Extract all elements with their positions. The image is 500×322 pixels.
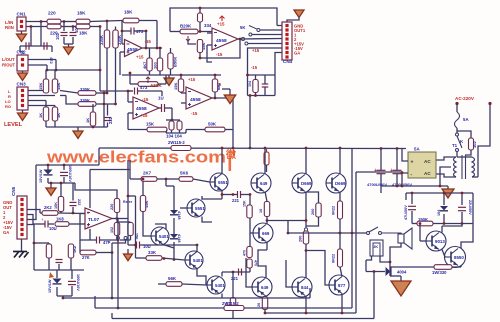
label 2	[294, 37, 297, 42]
resistor 330K sum a	[78, 91, 96, 96]
svg-text:649: 649	[261, 285, 269, 290]
wire dreg top	[443, 193, 445, 205]
svg-text:330K: 330K	[80, 98, 90, 103]
svg-text:5401: 5401	[193, 258, 203, 263]
svg-text:4148: 4148	[177, 211, 181, 219]
wire csup bot	[264, 87, 266, 96]
wire q7 base	[250, 232, 253, 234]
wire amp left down	[135, 196, 137, 245]
junction	[106, 20, 109, 23]
wire 0r22a down	[339, 219, 341, 233]
resistor 27K	[80, 250, 96, 255]
resistor 2W115-2 b	[224, 306, 244, 311]
svg-text:CN2: CN2	[17, 50, 27, 55]
label 15K op4in	[173, 83, 178, 90]
wire cap473 right	[134, 30, 146, 32]
svg-text:2K7: 2K7	[143, 171, 152, 176]
wire snubber bottom	[465, 150, 471, 155]
label 2K2	[44, 205, 52, 210]
svg-text:102: 102	[472, 141, 477, 148]
resistor 330Kb	[113, 30, 118, 48]
label B20K	[180, 24, 192, 29]
wire 10u right	[48, 223, 54, 225]
wire 18K out bottom	[90, 26, 100, 28]
wire to 104 caps	[171, 108, 173, 120]
label 472 b	[49, 57, 54, 64]
fuse 5A	[455, 112, 460, 128]
label 1K	[56, 113, 61, 118]
wire d669b coll	[339, 148, 341, 174]
svg-text:33K: 33K	[148, 250, 157, 255]
wire r15 to op4	[181, 92, 186, 94]
connector CN5	[11, 186, 27, 239]
label 1K8	[56, 217, 64, 222]
svg-text:1W/330: 1W/330	[432, 270, 447, 275]
svg-text:4558: 4558	[190, 97, 201, 103]
wire 150k right	[433, 223, 473, 225]
resistor 330K sum b	[78, 102, 96, 107]
wire 15K to fb	[199, 53, 201, 59]
junction	[439, 185, 442, 188]
wire d2 down	[173, 242, 175, 260]
resistor 18K top	[76, 19, 90, 24]
speaker	[398, 228, 412, 249]
wire r10kn bot	[48, 258, 50, 270]
capacitor 104 b	[177, 121, 182, 130]
capacitor 473 feedback	[131, 28, 134, 35]
svg-text:15K: 15K	[56, 83, 61, 90]
label 2W115-2 b	[222, 301, 239, 306]
wire 330Ka right	[96, 92, 107, 94]
label 15K	[201, 43, 206, 50]
wire em bus	[265, 312, 356, 314]
wire q3 coll	[163, 245, 174, 249]
wire 2k2 right	[58, 212, 85, 215]
wire gnd op4 stem	[229, 89, 231, 95]
resistor 18K bottom	[76, 24, 90, 29]
net circle fb1	[117, 237, 120, 240]
switch K blade	[457, 136, 462, 148]
svg-text:CN1: CN1	[17, 12, 27, 17]
wire tl072 vminus pin	[89, 229, 91, 240]
wire arrow stem	[127, 249, 129, 254]
svg-text:-15: -15	[145, 39, 152, 44]
transistor D669 c	[253, 223, 273, 243]
wire op4 + stub	[181, 102, 186, 104]
wire capb bot	[71, 286, 73, 296]
junction	[55, 69, 58, 72]
svg-text:GA: GA	[3, 230, 9, 235]
potentiometer B20K	[180, 29, 198, 34]
wire 18K to fb node	[139, 20, 157, 22]
capacitor 10U	[45, 221, 48, 228]
wire zener rail top	[36, 164, 99, 166]
label -15	[191, 111, 198, 116]
wire fb cap vertical	[145, 31, 147, 48]
label 220	[110, 204, 114, 210]
ground psu	[442, 189, 454, 198]
svg-text:200: 200	[299, 236, 303, 242]
transistor B877	[329, 275, 349, 295]
wire fb to wiper	[188, 41, 196, 44]
wire A50K left drop	[129, 73, 131, 84]
wire 20 down	[264, 310, 266, 314]
svg-text:GA: GA	[294, 51, 300, 56]
ground below 102 caps	[64, 47, 74, 55]
label 334	[204, 23, 212, 28]
wire 5k6 drop	[165, 179, 167, 186]
wire cap472 rail	[20, 45, 52, 47]
wire CN1 pin1 to R220a	[26, 21, 47, 23]
label 47P	[103, 240, 111, 245]
label AC-220V	[455, 96, 475, 101]
svg-text:470: 470	[243, 250, 247, 256]
switch relay contact a	[367, 232, 370, 235]
wire fb to bus	[117, 245, 119, 308]
wire 15Kamp top	[142, 179, 144, 196]
wire t1 pri bot	[472, 176, 478, 178]
label 4700U/50V a	[367, 182, 387, 187]
label GA	[294, 51, 300, 56]
label 1K2	[73, 246, 77, 253]
wire 330 right	[452, 266, 461, 268]
wire supply to rail	[249, 96, 251, 149]
bridge rectifier 5A	[408, 147, 436, 179]
wire 47p ext	[120, 239, 131, 241]
svg-text:-15: -15	[216, 52, 223, 57]
junction	[221, 147, 224, 150]
junction	[396, 185, 399, 188]
label 1	[3, 210, 6, 215]
wire reg left	[405, 193, 407, 200]
wire diode link	[365, 260, 367, 272]
transistor D649	[251, 173, 271, 193]
wire fuse to switch	[456, 128, 458, 133]
junction	[171, 119, 174, 122]
wire t1 pri top	[457, 156, 472, 158]
label L	[8, 89, 11, 94]
junction	[117, 307, 120, 310]
transformer T1 secondary	[454, 157, 457, 177]
svg-text:+15: +15	[140, 113, 148, 118]
transistor D669 a	[292, 173, 312, 193]
junction rail b	[305, 147, 308, 150]
junction	[199, 57, 202, 60]
resistor 15K op3	[147, 127, 167, 132]
label 10	[259, 209, 263, 213]
label 220 top	[48, 11, 56, 16]
junction rail c	[339, 147, 342, 150]
wire 222tl top	[72, 183, 74, 201]
wire 33k right	[162, 258, 185, 260]
wire 222tl bot	[72, 207, 74, 213]
wire 15K right	[166, 130, 167, 134]
junction	[92, 126, 95, 129]
resistor 2K2	[42, 211, 58, 216]
label 56K	[168, 276, 177, 281]
transistor B649	[252, 277, 272, 297]
wire 10u left	[33, 223, 45, 225]
wire ch2 down	[99, 27, 101, 92]
wire q12 em down	[221, 294, 223, 299]
wire CN3 p2	[28, 95, 55, 97]
svg-text:844: 844	[301, 285, 309, 290]
wire 22u top	[461, 193, 463, 205]
wire base net	[166, 185, 174, 187]
wire tl072 vplus feed	[90, 169, 130, 171]
svg-text:+15: +15	[188, 77, 196, 82]
capacitor 102 snubber	[469, 138, 474, 150]
wire 10 down	[266, 217, 268, 221]
wire q12 coll wire	[221, 272, 223, 277]
transistor 5401 a	[151, 227, 169, 245]
wire 22u bot	[461, 212, 463, 224]
junction	[165, 178, 168, 181]
wire out drop	[116, 219, 118, 224]
wire 27k right	[96, 252, 112, 254]
svg-text:R/OUT: R/OUT	[2, 63, 15, 68]
wire cap b top	[396, 149, 398, 171]
op-amp U2 4558	[212, 28, 238, 50]
wire op3 out	[159, 107, 161, 109]
wire 4K7 bottom	[149, 71, 151, 75]
wire CN5 gnd stem	[21, 239, 23, 251]
diode 4148 a	[170, 210, 178, 215]
svg-text:50K: 50K	[208, 122, 217, 127]
wire 220tl feed	[75, 183, 117, 199]
svg-text:9013: 9013	[435, 239, 445, 244]
wire 47u top	[411, 193, 413, 204]
svg-text:104: 104	[248, 81, 252, 87]
wire cn5 out wire	[27, 210, 40, 214]
wire CN4 pin GA	[275, 53, 282, 76]
label 222	[108, 116, 113, 124]
junction	[99, 25, 102, 28]
label LEVEL	[4, 122, 23, 128]
wire capa top	[63, 165, 65, 170]
svg-text:B20K: B20K	[180, 24, 192, 29]
wire 100 top	[159, 48, 161, 58]
wire CN4 gnd link	[287, 17, 299, 22]
svg-text:0R22: 0R22	[332, 206, 336, 215]
resistor red link	[264, 152, 269, 165]
junction	[106, 92, 109, 95]
junction	[127, 90, 130, 93]
label 472 a	[20, 50, 25, 57]
label 221 b	[231, 276, 239, 281]
wire rail left drop	[98, 148, 100, 165]
resistor 15K a	[43, 79, 48, 93]
junction	[30, 25, 33, 28]
wire op2 out	[238, 38, 282, 41]
label 4148 a	[177, 211, 181, 219]
svg-text:10K: 10K	[54, 202, 58, 209]
label 4700U/50V b	[392, 182, 412, 187]
label -15V	[3, 225, 12, 230]
junction	[305, 249, 308, 252]
wire fb node left	[122, 20, 123, 22]
wire zena top	[47, 165, 49, 170]
transistor D669 b	[326, 173, 346, 193]
wire top frame	[170, 8, 277, 32]
wire r15 up	[180, 75, 182, 79]
label 200 a	[311, 209, 315, 215]
junction	[114, 103, 117, 106]
wire op3 - in	[128, 101, 133, 103]
red mark zener	[49, 272, 54, 278]
label 2	[3, 215, 6, 220]
wire R220 to R18K top	[61, 21, 76, 23]
wire cn5 pin2 wire	[27, 215, 33, 225]
junction	[411, 192, 414, 195]
svg-text:5401: 5401	[215, 283, 225, 288]
relay JK box	[370, 240, 383, 256]
junction	[173, 258, 176, 261]
label 15V/1W b	[48, 279, 52, 293]
wire q1 em down	[221, 191, 223, 200]
svg-text:+: +	[390, 168, 393, 174]
label 470 a	[243, 250, 247, 256]
svg-text:CN5: CN5	[11, 186, 16, 196]
wire fb to rail	[232, 130, 234, 149]
wire a50k gnd stem	[168, 75, 170, 78]
label 47U/50V	[404, 205, 408, 220]
svg-text:20: 20	[257, 303, 261, 307]
wire 47p right	[100, 239, 119, 241]
ground op4	[224, 95, 236, 104]
wire op2 feedback	[200, 39, 240, 58]
capacitor 472b	[44, 42, 47, 50]
label 5K6	[180, 171, 189, 176]
resistor 330Ka	[104, 30, 109, 48]
wire 33k left	[136, 257, 147, 259]
diode 4148 b	[170, 234, 178, 239]
wire bus A rise	[309, 288, 311, 298]
wire gnd stem psu	[447, 186, 449, 189]
label 27K	[82, 255, 90, 260]
svg-text:15V/1W: 15V/1W	[39, 169, 43, 183]
svg-text:4148: 4148	[177, 234, 181, 242]
svg-text:5551: 5551	[218, 180, 228, 185]
wire 15kq7 bot	[249, 218, 251, 233]
resistor 470 a	[247, 247, 252, 258]
wire bus A	[63, 297, 310, 299]
svg-text:-15: -15	[251, 65, 258, 70]
transformer T1 primary	[472, 157, 475, 177]
wire main rail	[99, 147, 406, 150]
label 10K	[54, 202, 58, 209]
svg-text:0R22: 0R22	[332, 254, 336, 263]
wire b649 em	[265, 296, 266, 297]
switch relay contact b	[379, 232, 382, 235]
label 220 bottom	[50, 31, 58, 36]
wire op4 fb	[232, 98, 234, 130]
wire CN4 out1 pin	[260, 29, 282, 31]
label 33K	[148, 250, 157, 255]
label 221	[232, 198, 240, 203]
junction	[33, 242, 36, 245]
power arrow mid	[124, 254, 133, 261]
wire CN4 pin -15	[248, 48, 283, 75]
svg-text:1K2: 1K2	[73, 246, 77, 253]
wire 33k drop	[135, 245, 137, 258]
switch K contact a	[456, 133, 459, 136]
wire gnd stem z	[50, 183, 52, 188]
svg-text:1K: 1K	[85, 118, 90, 123]
label 10U	[49, 226, 57, 231]
label 15K	[38, 83, 43, 90]
wire CN4 pin 1	[252, 34, 282, 36]
svg-text:22U/50V: 22U/50V	[468, 200, 472, 215]
wire C334 down	[199, 22, 201, 32]
zener 15V/1W b	[53, 279, 62, 284]
wire 200c down	[232, 311, 234, 319]
junction	[134, 244, 137, 247]
svg-text:D669: D669	[335, 181, 346, 186]
wire 27k left	[79, 240, 81, 253]
wire b877 coll	[341, 294, 343, 314]
wire op4 out	[212, 97, 233, 99]
plus mark cap b	[390, 168, 393, 174]
resistor 1K a	[43, 107, 48, 121]
label 102 low	[110, 227, 114, 233]
wire left vert a	[127, 160, 129, 196]
wire AC N down	[478, 104, 490, 157]
svg-text:472: 472	[49, 57, 54, 64]
wire out node left	[288, 232, 340, 234]
svg-text:334: 334	[204, 23, 212, 28]
plus 10U	[41, 217, 44, 222]
label 222	[77, 199, 81, 205]
wire diode to gnd	[389, 267, 391, 276]
wire 100 bottom	[159, 71, 161, 75]
wire bottom bus op1	[122, 74, 171, 76]
wire c221 right	[241, 194, 251, 196]
wire 2k2 left	[40, 212, 42, 214]
resistor 4K7	[147, 58, 152, 71]
switch relay blade	[369, 227, 378, 232]
junction rail a	[264, 147, 267, 150]
capacitor 222	[104, 118, 111, 121]
net circle pin1	[249, 33, 252, 36]
svg-text:220: 220	[110, 204, 114, 210]
label 330K	[117, 35, 122, 45]
power arrow +15	[220, 16, 225, 21]
resistor 220 tl	[114, 199, 119, 213]
resistor 50K op4	[205, 127, 225, 132]
label 50K	[208, 122, 217, 127]
wire 150k left	[412, 223, 417, 225]
svg-text:649: 649	[260, 181, 268, 186]
label -15	[251, 65, 258, 70]
label 102	[472, 141, 477, 148]
wire CN3 p3	[28, 100, 46, 102]
svg-text:102: 102	[110, 227, 114, 233]
capacitor 47P	[97, 237, 100, 244]
wire 5k6 left	[166, 178, 179, 180]
svg-text:330K: 330K	[80, 87, 90, 92]
wire 680 up	[214, 75, 216, 79]
wire q7 em down	[266, 242, 268, 251]
transistor 9013	[426, 231, 446, 251]
wire speaker bottom	[390, 243, 401, 262]
resistor 15K low	[128, 223, 133, 236]
junction	[46, 69, 49, 72]
wire amp in	[127, 196, 129, 219]
pin AC L	[455, 102, 458, 105]
junction	[419, 222, 422, 225]
wire zena bot	[47, 178, 49, 183]
